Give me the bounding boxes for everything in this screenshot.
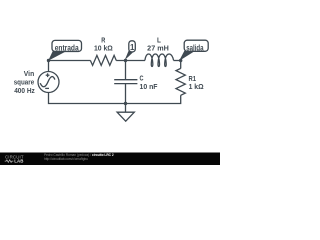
svg-text:400 Hz: 400 Hz (14, 88, 35, 95)
wire: bottom rail from ground node to Vin source bottom (49, 92, 126, 103)
resistor R1 zigzag (176, 68, 185, 95)
svg-text:C: C (140, 75, 144, 82)
wire: node 1 down to capacitor C (125, 61, 127, 80)
svg-text:entrada: entrada (55, 43, 80, 52)
footer bar (0, 153, 220, 166)
svg-text:L: L (157, 37, 161, 44)
wire: salida node down to resistor R1 (180, 61, 182, 69)
svg-text:27 mH: 27 mH (147, 45, 169, 52)
junction node dot: salida (179, 59, 182, 62)
svg-text:1: 1 (130, 43, 135, 52)
footer CircuitLab logo resistor + LAB (5, 159, 24, 164)
voltage source V1 circle (38, 72, 59, 93)
junction node dot: entrada (47, 59, 50, 62)
svg-text:R: R (101, 37, 105, 44)
svg-text:Vin: Vin (24, 71, 34, 78)
svg-text:R1: R1 (189, 76, 197, 83)
wire: capacitor C to bottom rail (125, 84, 127, 104)
junction node dot: ground (124, 102, 127, 105)
salida callout box (184, 40, 208, 51)
wire: resistor R to node 1 to inductor L (116, 60, 145, 62)
capacitor C plates (114, 80, 137, 84)
svg-text:1 kΩ: 1 kΩ (189, 84, 204, 91)
svg-text:http://circuitlab.com/c/cma9gb: http://circuitlab.com/c/cma9gbu (44, 157, 88, 161)
voltage source plus sign (46, 73, 50, 77)
svg-text:10 kΩ: 10 kΩ (94, 45, 113, 52)
voltage source sine wave (40, 77, 55, 87)
svg-text:LAB: LAB (14, 159, 23, 164)
ground stub wire (125, 104, 127, 113)
node 1 callout box (129, 41, 136, 52)
svg-text:salida: salida (186, 43, 204, 52)
entrada callout pointer (48, 51, 66, 61)
node 1 callout pointer (125, 51, 134, 60)
junction node dot: node 1 (124, 59, 127, 62)
wire: entrada node down to Vin source top (48, 61, 50, 72)
wire: inductor L to salida node (174, 60, 181, 62)
entrada callout box (52, 40, 82, 51)
inductor L coil (145, 54, 174, 67)
svg-text:square: square (14, 80, 35, 87)
svg-text:10 nF: 10 nF (140, 84, 159, 91)
wire: top rail from entrada node to resistor R (49, 60, 91, 62)
salida callout pointer (179, 51, 195, 61)
resistor R zigzag (90, 55, 116, 65)
wire: resistor R1 bottom to bottom rail to ground node (126, 95, 181, 103)
ground symbol (117, 112, 134, 121)
voltage source minus sign (45, 87, 49, 89)
